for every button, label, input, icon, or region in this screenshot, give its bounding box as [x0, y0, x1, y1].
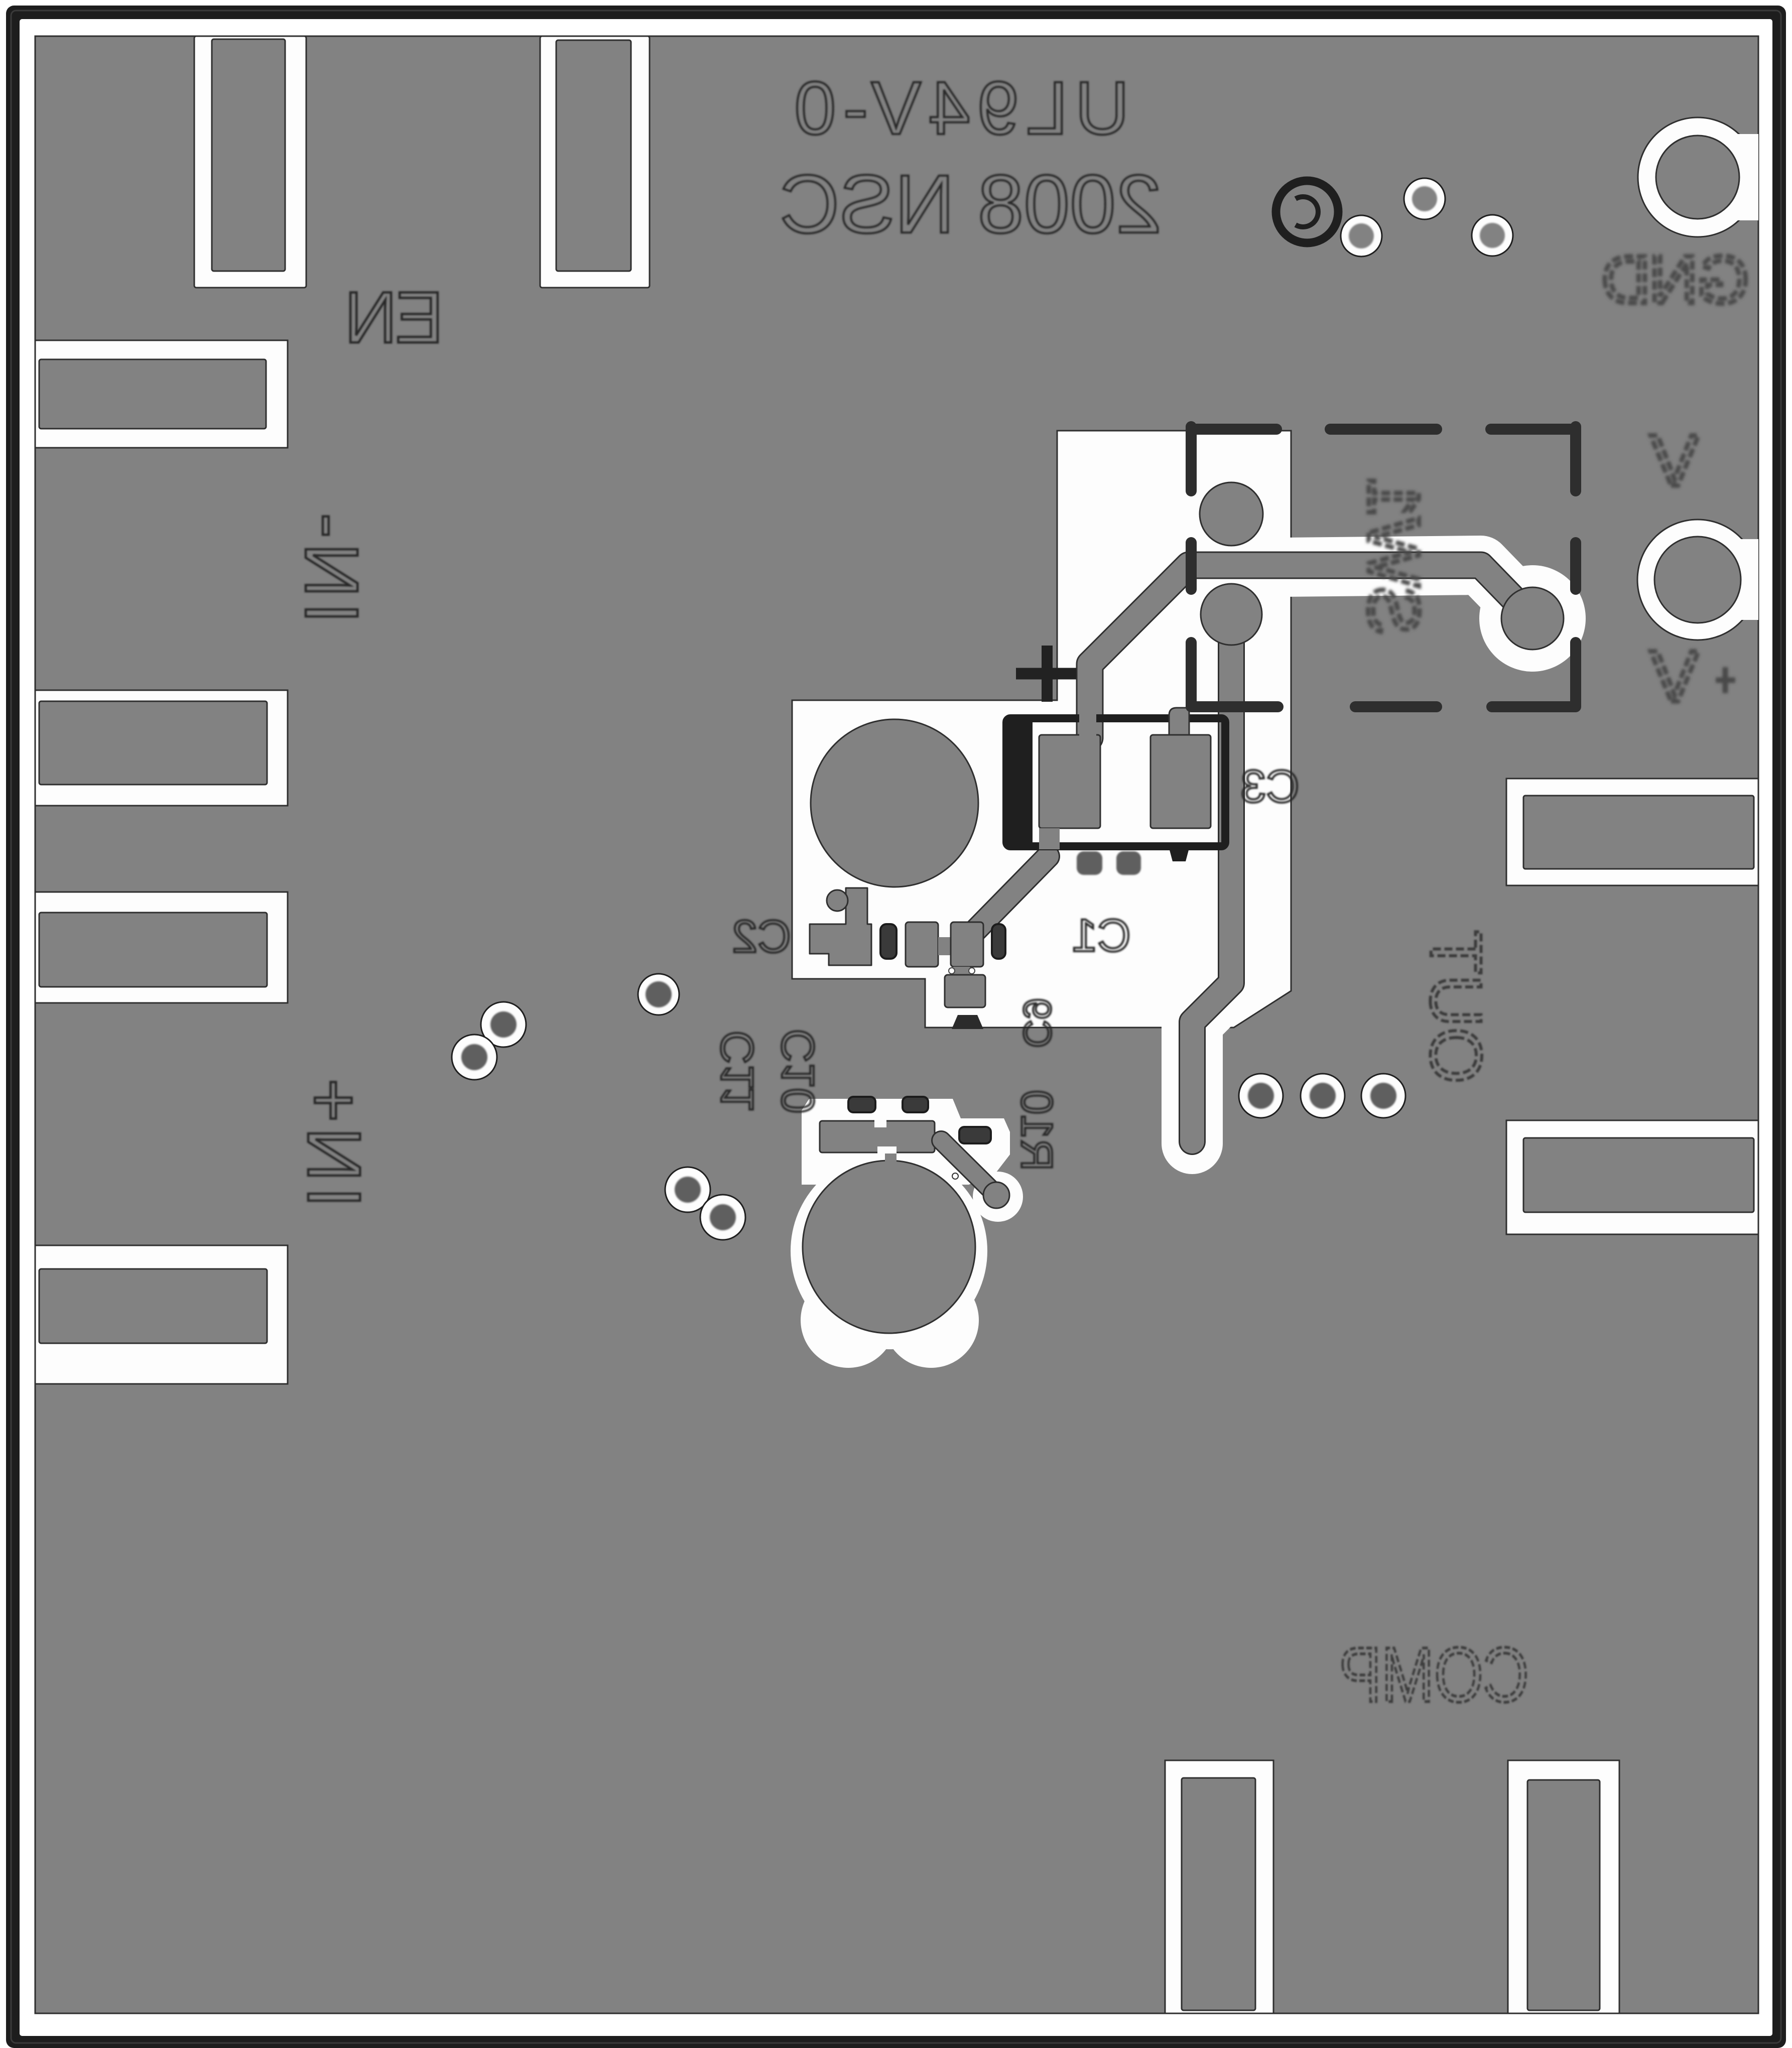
- label 2008 NSC: [780, 158, 1162, 250]
- via C3 a: [1077, 851, 1102, 875]
- svg-text:V: V: [1650, 635, 1699, 717]
- label GND: [1603, 242, 1749, 318]
- central clearance region: [792, 431, 1291, 1028]
- left slot clearance 2: [35, 690, 288, 806]
- switch SW1 outline: [1191, 427, 1576, 707]
- label C9: [1015, 998, 1060, 1048]
- pad R10 smd-2: [903, 1097, 928, 1112]
- C3 polarity tab: [1169, 846, 1190, 861]
- pad C1 bottom: [945, 975, 985, 1007]
- via B: [638, 974, 679, 1015]
- pad C2 smd-2: [992, 924, 1005, 959]
- label IN+: [292, 1073, 376, 1208]
- left slot clearance 1: [35, 340, 288, 448]
- via F3: [1472, 215, 1513, 256]
- via row D3: [1361, 1074, 1405, 1118]
- svg-text:EN: EN: [346, 277, 443, 358]
- svg-text:C9: C9: [1015, 998, 1060, 1048]
- svg-text:OUT: OUT: [1416, 930, 1497, 1084]
- via F2: [1404, 178, 1445, 219]
- R10 pin hole marker: [952, 1173, 958, 1179]
- label OUT: [1416, 930, 1497, 1084]
- OUT pad slot clearance 2: [1506, 1120, 1758, 1234]
- pad C1 center: [951, 922, 983, 977]
- pad R10 wiper: [820, 1119, 935, 1162]
- resistor R10 hole pad: [803, 1161, 975, 1333]
- via pair A: [452, 1002, 526, 1080]
- pad island IN-: [39, 701, 267, 785]
- via C2: [827, 890, 848, 911]
- capacitor C3 polarity plus: [1016, 646, 1076, 702]
- label V+: [1650, 635, 1735, 717]
- wire SW1 to C3: [1090, 565, 1532, 738]
- pad SW1 pin1: [1200, 482, 1263, 546]
- svg-text:C2: C2: [732, 911, 791, 962]
- label C10: [773, 1029, 824, 1114]
- svg-text:GND: GND: [1603, 242, 1749, 318]
- via row D2: [1301, 1074, 1345, 1118]
- pad R10 smd-3: [959, 1127, 991, 1143]
- label C2: [732, 911, 791, 962]
- label COMP: [1339, 1631, 1529, 1718]
- svg-text:C1: C1: [1072, 910, 1131, 961]
- pad island COMP-1: [1182, 1778, 1255, 2010]
- GND hole clearance: [1638, 117, 1758, 237]
- svg-text:V: V: [1650, 420, 1699, 501]
- svg-text:SW1: SW1: [1353, 477, 1435, 635]
- bottom slot clearance 2: [1508, 1760, 1619, 2013]
- label EN: [346, 277, 443, 358]
- pad R10 smd-4: [952, 1015, 983, 1029]
- pad C2 smd-1: [880, 924, 897, 959]
- via C3 b: [1116, 851, 1141, 875]
- pad C3 right: [1150, 708, 1211, 828]
- label SW1: [1353, 477, 1435, 635]
- pad island top-1: [212, 39, 285, 271]
- svg-text:IN-: IN-: [290, 508, 374, 623]
- SW1 trace clearance channel: [1283, 565, 1586, 672]
- label R10: [1012, 1090, 1062, 1171]
- pad C3 left: [1039, 707, 1100, 849]
- pad island IN+: [39, 1269, 267, 1343]
- R10 clearance blob: [791, 1099, 1023, 1368]
- via F1: [1341, 215, 1382, 257]
- svg-text:COMP: COMP: [1339, 1631, 1529, 1718]
- wire R10 arm: [941, 1140, 1009, 1208]
- via row D1: [1239, 1074, 1283, 1118]
- pad island top-2: [556, 40, 631, 271]
- svg-text:UL94V-0: UL94V-0: [787, 66, 1129, 150]
- pad island COMP-2: [1527, 1780, 1600, 2010]
- label UL94V-0: [787, 66, 1129, 150]
- capacitor C3 outline: [1006, 718, 1225, 846]
- wire C1 to C3: [976, 856, 1048, 930]
- pad island OUT-1: [1523, 796, 1754, 869]
- left slot clearance 3: [35, 892, 288, 1003]
- capacitor C2 hole pad: [811, 719, 978, 887]
- pad R10 smd-1: [848, 1097, 875, 1112]
- top slot clearance 1: [194, 36, 306, 288]
- V- hole pad: [1654, 537, 1741, 623]
- wire OUT: [1192, 614, 1231, 1141]
- svg-text:C11: C11: [712, 1031, 763, 1112]
- drill marks C1: [949, 968, 975, 974]
- pad V+ hole: [1501, 587, 1564, 650]
- top slot clearance 2: [540, 36, 650, 288]
- label C3: [1240, 761, 1300, 812]
- svg-text:C10: C10: [773, 1029, 824, 1114]
- label V-: [1650, 420, 1735, 501]
- svg-text:2008 NSC: 2008 NSC: [780, 158, 1162, 250]
- pad island EN: [39, 359, 266, 429]
- pad C2 negative: [810, 888, 871, 965]
- bottom slot clearance 1: [1165, 1760, 1273, 2013]
- label IN-: [290, 508, 374, 623]
- OUT pad slot clearance 1: [1506, 779, 1758, 885]
- pad island left-3: [39, 913, 267, 987]
- label C11: [712, 1031, 763, 1112]
- OUT trace slot clearance: [1192, 969, 1231, 1143]
- pad island OUT-2: [1523, 1138, 1754, 1212]
- pad C1 left: [906, 922, 951, 967]
- copyright mark: [1276, 181, 1338, 243]
- GND hole pad: [1656, 136, 1739, 219]
- svg-text:R10: R10: [1012, 1090, 1062, 1171]
- svg-text:C3: C3: [1240, 761, 1300, 812]
- label C1: [1072, 910, 1131, 961]
- pad SW1 pin2: [1201, 584, 1262, 645]
- svg-text:IN+: IN+: [292, 1073, 376, 1208]
- via pair C: [665, 1167, 745, 1240]
- V- hole clearance: [1637, 520, 1758, 640]
- left slot clearance 4: [35, 1245, 288, 1384]
